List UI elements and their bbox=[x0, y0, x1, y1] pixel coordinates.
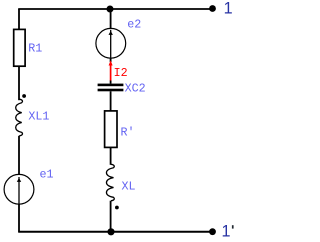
source e2 bbox=[96, 28, 126, 58]
inductor XL1 bbox=[16, 99, 23, 136]
wire e2 to current arrow bbox=[110, 58, 112, 62]
wire e1 to bottom bus bbox=[18, 204, 20, 232]
polarity dot XL bbox=[115, 206, 119, 210]
resistor R1 bbox=[14, 29, 25, 66]
svg-text:XL1: XL1 bbox=[28, 110, 49, 124]
wire R' to XL bbox=[110, 147, 112, 164]
node junction top (middle branch joins top bus) bbox=[107, 6, 114, 13]
wire left branch upper segment bbox=[18, 9, 20, 30]
wire R1 to XL1 bbox=[18, 66, 20, 100]
terminal 1' bbox=[209, 228, 216, 235]
svg-text:1: 1 bbox=[224, 0, 233, 18]
wire bottom bus to terminal 1' bbox=[18, 231, 212, 233]
wire XL to bottom bus bbox=[110, 201, 112, 232]
wire I2 arrow to capacitor bbox=[110, 81, 112, 84]
svg-text:XL: XL bbox=[122, 180, 136, 194]
resistor R' bbox=[105, 111, 117, 147]
polarity dot XL1 bbox=[22, 94, 26, 98]
svg-text:e1: e1 bbox=[40, 167, 54, 181]
source e1 bbox=[4, 174, 34, 204]
svg-text:e2: e2 bbox=[127, 18, 141, 32]
wire XL1 to e1 bbox=[18, 136, 20, 175]
svg-text:R1: R1 bbox=[28, 41, 42, 55]
svg-text:I2: I2 bbox=[114, 66, 128, 80]
wire top bus from left branch to terminal 1 bbox=[18, 8, 212, 10]
svg-text:1: 1 bbox=[222, 222, 231, 240]
node junction bottom (middle branch joins bottom bus) bbox=[107, 228, 114, 235]
wire middle branch top segment bbox=[110, 9, 112, 29]
svg-text:R': R' bbox=[121, 125, 135, 139]
inductor XL bbox=[106, 164, 114, 201]
terminal 1 bbox=[209, 5, 216, 12]
current arrow I2 bbox=[109, 60, 113, 65]
wire capacitor to R' bbox=[110, 91, 112, 111]
svg-text:XC2: XC2 bbox=[125, 82, 146, 96]
capacitor XC2 bbox=[98, 84, 124, 87]
